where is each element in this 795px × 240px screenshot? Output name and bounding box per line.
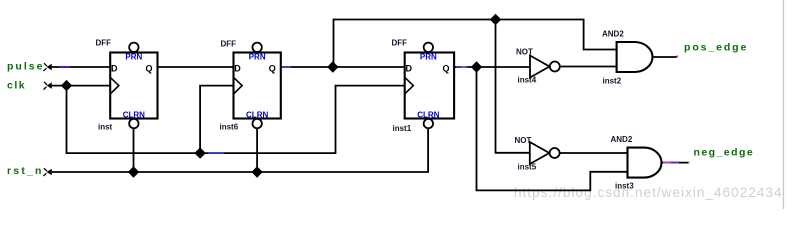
svg-text:pulse: pulse: [7, 60, 44, 72]
AND gate inst3: [611, 135, 662, 191]
wire clk branch to FF2 clock: [200, 86, 233, 154]
wire FF3.Q to NOT4 input: [454, 66, 530, 68]
svg-text:Q: Q: [269, 64, 276, 74]
svg-text:clk: clk: [7, 80, 26, 92]
svg-text:D: D: [111, 64, 118, 74]
junction rst at FF1: [128, 166, 139, 177]
svg-text:inst3: inst3: [615, 182, 634, 191]
NOT gate inst4: [516, 48, 560, 85]
wire artifact blue on FF3.Q exit: [456, 66, 468, 68]
svg-text:PRN: PRN: [125, 53, 142, 62]
input port pulse: [7, 60, 52, 72]
svg-text:inst2: inst2: [603, 77, 622, 86]
wire pulse to FF1.D: [52, 66, 110, 68]
svg-text:CLRN: CLRN: [246, 111, 268, 120]
wire artifact blue on AND3 output: [671, 162, 679, 164]
wire artifact magenta on AND3 output: [663, 162, 671, 164]
wire FF1 CLRN to rst line: [133, 128, 135, 172]
svg-text:inst1: inst1: [393, 124, 412, 133]
wire artifact on FF2.Q exit: [282, 66, 291, 68]
wire FF1.Q to FF2.D: [158, 66, 234, 68]
junction sync3 tap: [471, 61, 482, 72]
svg-text:inst5: inst5: [518, 163, 537, 172]
wire AND2 output to pos_edge: [653, 56, 677, 58]
wire artifact magenta on FF3.Q exit: [461, 66, 466, 68]
svg-text:neg_edge: neg_edge: [694, 147, 755, 159]
output port neg_edge: [688, 147, 754, 163]
junction clk at input row: [61, 80, 72, 91]
wire NOT5 output to AND3 top input: [560, 152, 628, 154]
svg-text:inst: inst: [98, 123, 113, 132]
junction rail tap to NOT5: [490, 14, 501, 25]
svg-text:inst4: inst4: [518, 76, 537, 85]
D flip-flop inst6 (FF2): [220, 40, 281, 132]
svg-text:pos_edge: pos_edge: [684, 42, 748, 54]
svg-text:https://blog.csdn.net/weixin_4: https://blog.csdn.net/weixin_46022434: [514, 185, 783, 200]
wire artifact blue on pulse wire: [59, 66, 70, 68]
input port clk: [7, 80, 52, 92]
wire clk to FF1 clock: [52, 85, 110, 87]
wire rst_n line to FF3 CLRN: [52, 128, 428, 172]
junction clk line at FF2 branch: [194, 147, 205, 158]
svg-text:Q: Q: [442, 64, 449, 74]
junction sync2 tap: [327, 61, 338, 72]
wire NOT4 output to AND2 bottom input: [560, 66, 617, 68]
svg-text:Q: Q: [145, 64, 152, 74]
AND gate inst2: [602, 30, 653, 86]
border line right: [783, 0, 785, 209]
D flip-flop inst (FF1): [96, 39, 158, 132]
svg-text:CLRN: CLRN: [123, 111, 145, 120]
svg-text:D: D: [406, 64, 413, 74]
svg-text:DFF: DFF: [96, 39, 112, 48]
svg-text:AND2: AND2: [602, 30, 624, 39]
svg-text:CLRN: CLRN: [417, 111, 439, 120]
svg-text:inst6: inst6: [220, 123, 239, 132]
D flip-flop inst1 (FF3): [392, 39, 455, 134]
NOT gate inst5: [515, 136, 560, 172]
junction rst at FF2: [251, 166, 262, 177]
svg-text:DFF: DFF: [392, 39, 408, 48]
svg-text:DFF: DFF: [221, 40, 237, 49]
svg-text:AND2: AND2: [611, 135, 633, 144]
svg-text:rst_n: rst_n: [7, 165, 44, 177]
wire AND3 output to neg_edge: [661, 162, 688, 164]
wire sync2 rail to AND2 top input: [334, 20, 617, 68]
svg-text:PRN: PRN: [420, 53, 437, 62]
input port rst_n: [7, 165, 52, 177]
svg-text:D: D: [234, 64, 241, 74]
output port pos_edge: [677, 42, 749, 57]
wire clk distribution line: [67, 86, 405, 154]
wire rail to NOT5 input: [496, 20, 530, 153]
wire sync3 to AND3 bottom input: [477, 67, 628, 190]
svg-text:PRN: PRN: [249, 53, 266, 62]
wire artifact blue on clk line: [208, 152, 224, 154]
wire FF2 CLRN to rst line: [256, 128, 258, 172]
wire FF2.Q to FF3.D: [281, 66, 405, 68]
